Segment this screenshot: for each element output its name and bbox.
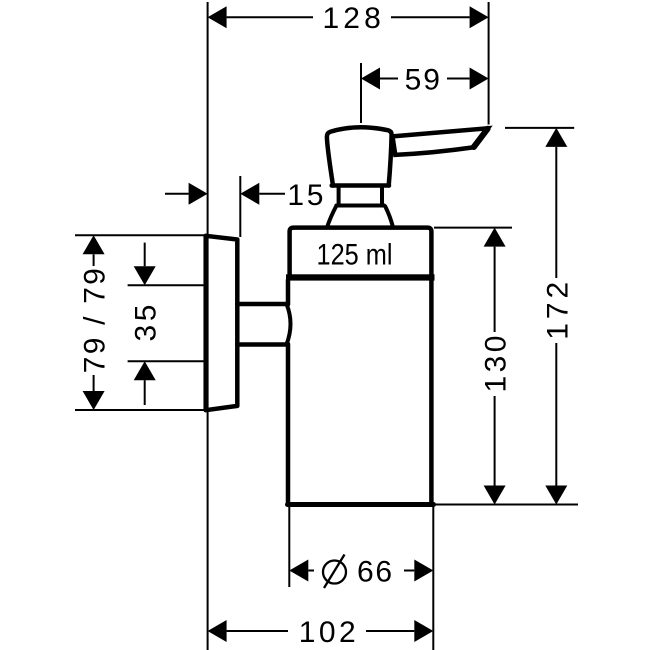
pump ring bottom (336, 204, 384, 208)
svg-text:128: 128 (322, 2, 380, 35)
pump flare left (327, 207, 336, 227)
body bottom (288, 502, 434, 507)
extension line plate bottom y=410 (75, 409, 204, 411)
extension line plate top y=235.3 (75, 234, 204, 236)
dimension diameter 66 (289, 555, 433, 589)
svg-text:79 / 79: 79 / 79 (79, 268, 112, 373)
extension line collar top right y=227.6 (434, 227, 512, 229)
extension line body bottom right y=504.5 (435, 504, 578, 506)
dimension 35 (130, 243, 163, 405)
svg-text:66: 66 (357, 556, 392, 589)
extension line hole bottom y=361.2 (128, 360, 204, 362)
svg-text:130: 130 (480, 336, 513, 393)
collar 125 ml box (290, 228, 432, 276)
dimension 15 (165, 179, 323, 212)
pump head bottom (332, 183, 389, 188)
body right edge (429, 280, 434, 503)
body left edge upper (286, 280, 291, 305)
extension line left vertical x=207.6 full height (207, 2, 209, 650)
dimension 130 (480, 228, 513, 505)
pump lever (393, 128, 488, 155)
extension line pump apex x=361 (360, 63, 362, 123)
body left edge lower (286, 344, 291, 503)
dimension 102 (208, 616, 434, 649)
diameter symbol (323, 561, 346, 584)
extension line lever top right y=127.9 (505, 127, 574, 129)
wall plate (206, 236, 238, 410)
pump neck right (380, 188, 384, 204)
product drawing (206, 127, 488, 504)
dimension 79 / 79 (79, 235, 112, 410)
bracket ring arc (287, 304, 291, 345)
svg-text:125 ml: 125 ml (317, 239, 393, 272)
extension line body left bottom x=289.3 (288, 507, 290, 587)
extension line plate right x=240.3 (239, 176, 241, 237)
extension line body right bottom x=433.3 (432, 506, 434, 650)
pump flare right (385, 207, 393, 227)
bracket arm top (237, 302, 286, 307)
svg-text:172: 172 (541, 282, 574, 340)
collar bottom band (286, 274, 435, 280)
pump head outline (327, 127, 392, 185)
extension line right of lever tip x=488.6 (488, 2, 490, 125)
dimension 59 (361, 64, 489, 97)
svg-text:102: 102 (299, 616, 356, 649)
pump lever tip face (474, 129, 488, 147)
pump neck left (337, 188, 341, 204)
bracket arm bottom (237, 342, 286, 347)
extension line hole top y=285.3 (128, 284, 204, 286)
dimension 172 (541, 128, 574, 505)
dimension 128 (208, 2, 489, 35)
